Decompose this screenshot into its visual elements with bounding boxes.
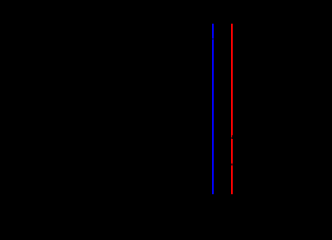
dark notch on red line (upper) [231, 135, 234, 139]
red vertical line [231, 24, 233, 195]
dark notch on red line (lower) [231, 164, 233, 166]
blue vertical line [212, 24, 214, 195]
dark band on blue line [212, 38, 214, 40]
